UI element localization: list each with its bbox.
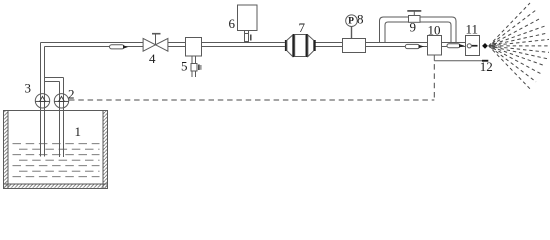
wire: main horizontal pipe (double line) (41, 43, 466, 47)
wire: pump 3 suction + riser pipe (double line) (41, 43, 45, 157)
fitting below tank 6 (245, 34, 252, 42)
nozzle tip 12 (482, 43, 488, 49)
wire: header connector between pump risers (45, 78, 64, 82)
bypass valve 9 (407, 11, 421, 22)
tank 1 walls (4, 111, 108, 189)
svg-text:P: P (348, 17, 354, 27)
flow arrow in pipe (after box 10) (447, 44, 465, 48)
leader line to label 12 (434, 60, 488, 62)
svg-text:2: 2 (68, 87, 75, 102)
spray jet dashed rays (489, 3, 550, 89)
flow arrow in pipe (before box 10) (405, 44, 424, 48)
wire: pump 2 suction + riser pipe (double line) (60, 78, 64, 158)
svg-text:7: 7 (299, 20, 306, 35)
flowmeter 7 (285, 34, 316, 57)
flow arrow in pipe (left section) (110, 45, 129, 49)
nozzle body 11 (466, 36, 480, 56)
wire: stub below tank 6 (245, 31, 249, 34)
svg-text:11: 11 (466, 22, 479, 37)
svg-text:1: 1 (75, 124, 82, 139)
accumulator tank 6 (238, 5, 258, 31)
pressure gauge 8 stem (351, 27, 353, 40)
housing box above sampler 5 (186, 38, 202, 57)
svg-text:6: 6 (229, 16, 236, 31)
controller box 10 (428, 36, 442, 61)
wire: dashed control line from pump 2 to box 10 (69, 61, 434, 100)
svg-text:3: 3 (25, 81, 32, 96)
svg-text:8: 8 (357, 12, 364, 27)
svg-text:9: 9 (410, 20, 417, 35)
valve 4 (143, 34, 168, 52)
wire: drain pipe below housing (192, 56, 196, 77)
tank 1 liquid level dashes (13, 144, 100, 177)
pump 2 (54, 94, 68, 108)
gauge housing box (343, 39, 366, 53)
svg-text:4: 4 (149, 51, 156, 66)
pressure gauge 8 (346, 15, 358, 27)
svg-text:12: 12 (480, 59, 493, 74)
sampler valve 5 (191, 64, 201, 72)
wire: bypass loop (double line) (380, 17, 457, 43)
svg-text:5: 5 (181, 59, 188, 74)
svg-text:10: 10 (428, 23, 441, 38)
pump 3 (35, 94, 49, 108)
